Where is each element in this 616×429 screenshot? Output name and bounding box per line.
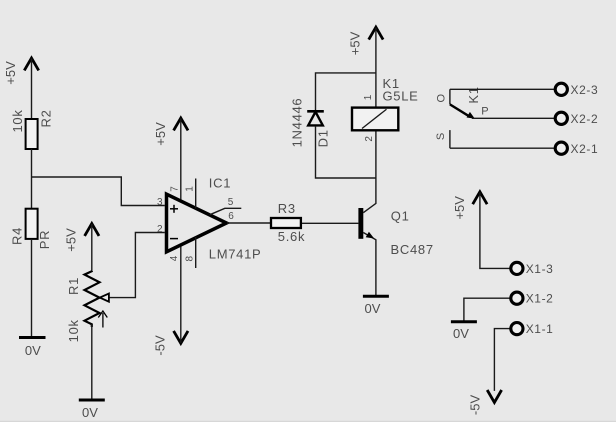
- wire Q1 collector to relay coil pin 2 / diode node: [363, 131, 376, 213]
- connector pad X2-3: [555, 83, 567, 95]
- wire to X2-2: [472, 117, 554, 119]
- svg-text:6: 6: [228, 211, 234, 222]
- svg-text:0V: 0V: [365, 301, 381, 316]
- svg-text:+5V: +5V: [63, 228, 78, 252]
- svg-text:0V: 0V: [25, 343, 41, 358]
- svg-text:+5V: +5V: [3, 61, 18, 85]
- transistor Q1 emitter arrowhead: [366, 232, 375, 239]
- connector pad X1-2: [511, 292, 523, 304]
- resistor R3: [271, 201, 305, 244]
- wire Q1 emitter to ground: [363, 233, 376, 297]
- svg-text:R1: R1: [66, 277, 81, 295]
- +5V arrow symbol: [24, 58, 38, 70]
- svg-text:BC487: BC487: [391, 242, 434, 257]
- svg-text:0V: 0V: [82, 405, 98, 420]
- resistor R2 body: [26, 119, 38, 149]
- +5V arrow symbol: [369, 27, 383, 39]
- op-amp IC1 triangle body: [167, 194, 227, 252]
- wire +5V to R2 top: [31, 59, 33, 120]
- op-amp plus input marking: [170, 208, 178, 210]
- svg-text:G5LE: G5LE: [383, 89, 419, 104]
- svg-text:-5V: -5V: [153, 335, 168, 356]
- svg-text:X1-1: X1-1: [526, 322, 554, 336]
- svg-text:PR: PR: [37, 230, 52, 249]
- svg-text:R3: R3: [278, 201, 296, 216]
- ground bar symbol: [451, 320, 477, 323]
- wire diode bottom to collector node: [316, 126, 376, 178]
- potentiometer R1 adjust arrow: [102, 313, 104, 328]
- wire diode branch top: [316, 73, 376, 110]
- supply +5V arrow (above relay): [348, 27, 383, 107]
- potentiometer R1 zigzag body: [85, 271, 100, 327]
- op-amp IC1: [167, 194, 227, 252]
- -5V arrow symbol: [174, 331, 188, 343]
- svg-text:1: 1: [185, 186, 196, 192]
- svg-text:10k: 10k: [66, 319, 81, 342]
- wire R3 to Q1 base: [302, 222, 358, 224]
- wire op-amp pin 2 to R1 wiper: [109, 233, 165, 298]
- relay K1 contact O terminal stub: [449, 89, 451, 104]
- wire +5V to R1 top: [91, 224, 93, 271]
- ground bar symbol: [79, 399, 105, 402]
- svg-text:R4: R4: [9, 227, 24, 245]
- svg-text:8: 8: [185, 255, 196, 261]
- potentiometer R1: [66, 271, 109, 342]
- svg-text:O: O: [436, 93, 448, 102]
- supply +5V arrow (above R1): [63, 224, 99, 272]
- diode D1 triangle: [308, 112, 323, 126]
- wire +5V to X1-3: [480, 192, 510, 268]
- svg-text:X1-2: X1-2: [526, 292, 554, 306]
- wire op-amp output to R3: [227, 222, 270, 224]
- wire junction to op-amp pin 3: [32, 177, 165, 206]
- svg-text:5.6k: 5.6k: [278, 229, 305, 244]
- wire R2 bottom to R4 top: [31, 149, 33, 209]
- diode D1 cathode bar: [307, 110, 324, 113]
- op-amp pin 8 stub: [195, 237, 197, 268]
- resistor R3 body: [271, 218, 301, 228]
- svg-text:X2-1: X2-1: [571, 142, 599, 156]
- +5V arrow symbol: [473, 192, 487, 204]
- connector pad X1-3: [511, 262, 523, 274]
- wire X1-2 to ground: [464, 298, 510, 322]
- svg-text:X2-2: X2-2: [571, 112, 599, 126]
- svg-text:2: 2: [364, 136, 375, 142]
- op-amp minus input marking: [170, 238, 178, 240]
- svg-text:LM741P: LM741P: [209, 247, 262, 262]
- diode D1 1N4446: [290, 98, 331, 148]
- resistor R4: [9, 209, 52, 250]
- wire R1 bottom to ground: [91, 324, 93, 400]
- wire +5V to op-amp pin 7: [180, 119, 182, 203]
- ground bar symbol: [19, 336, 46, 339]
- wire X1-1 to -5V: [494, 329, 510, 391]
- svg-text:D1: D1: [315, 129, 330, 147]
- supply +5V arrow (left rail): [3, 58, 39, 120]
- svg-text:R2: R2: [39, 109, 54, 127]
- svg-text:7: 7: [170, 186, 181, 192]
- connector pad X2-2: [555, 112, 567, 124]
- connector pad X1-1: [511, 323, 523, 335]
- svg-text:3: 3: [157, 197, 163, 208]
- svg-text:1: 1: [363, 94, 374, 100]
- ground 0V (below Q1): [363, 296, 389, 316]
- svg-text:IC1: IC1: [209, 176, 231, 191]
- +5V arrow symbol: [85, 224, 99, 236]
- svg-text:-5V: -5V: [467, 395, 482, 416]
- transistor Q1 base bar: [358, 208, 363, 239]
- wire to X2-1: [450, 147, 554, 149]
- supply +5V arrow (above op-amp): [153, 118, 188, 202]
- svg-text:P: P: [481, 106, 488, 118]
- +5V arrow symbol: [174, 118, 188, 130]
- svg-text:+5V: +5V: [153, 122, 168, 146]
- relay K1 coil box: [352, 108, 398, 131]
- ground bar symbol: [363, 295, 389, 298]
- connector pad X2-1: [555, 142, 567, 154]
- wire +5V to relay coil pin 1: [375, 28, 377, 108]
- wire op-amp pin 4 to -5V: [180, 245, 182, 343]
- svg-text:5: 5: [228, 197, 234, 208]
- transistor Q1: [358, 131, 433, 297]
- svg-text:S: S: [435, 133, 447, 140]
- op-amp pin 1 stub: [195, 179, 197, 209]
- relay K1 switch arm: [450, 104, 470, 116]
- svg-text:2: 2: [157, 224, 163, 235]
- op-amp pin 5 stub: [210, 208, 241, 214]
- svg-text:+5V: +5V: [452, 196, 467, 220]
- svg-text:1N4446: 1N4446: [290, 98, 305, 148]
- relay contact switch K1: [435, 86, 488, 148]
- relay coil K1 G5LE: [352, 76, 419, 142]
- svg-text:+5V: +5V: [348, 31, 363, 55]
- wire to X2-3: [450, 88, 554, 90]
- supply -5V arrow (below op-amp): [153, 245, 188, 356]
- svg-text:10k: 10k: [10, 109, 25, 132]
- resistor R2: [10, 109, 54, 149]
- potentiometer R1 wiper arrow: [100, 294, 109, 302]
- svg-text:X2-3: X2-3: [571, 83, 599, 97]
- ground 0V (below R1): [79, 400, 105, 420]
- svg-text:X1-3: X1-3: [526, 262, 554, 276]
- wire R4 bottom to ground: [31, 239, 33, 338]
- svg-text:Q1: Q1: [391, 208, 410, 223]
- relay K1 contact S terminal stub: [449, 130, 451, 148]
- resistor R4 body: [26, 209, 38, 239]
- -5V arrow symbol: [487, 390, 501, 402]
- svg-text:0V: 0V: [453, 326, 469, 341]
- ground 0V (below R4): [19, 338, 46, 359]
- svg-text:4: 4: [169, 255, 180, 261]
